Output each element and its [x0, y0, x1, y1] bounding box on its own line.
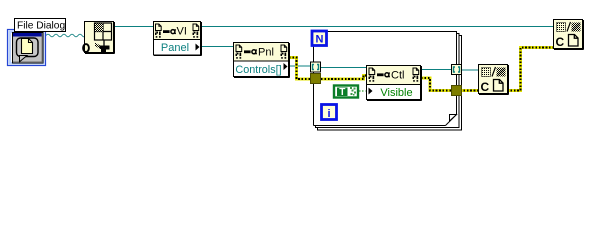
- wire: error left tunnel to Ctl error in: [321, 76, 367, 80]
- for loop stacked border line 2: [316, 36, 462, 131]
- property node Ctl: [367, 66, 422, 101]
- express VI File Dialog icon: [8, 30, 46, 66]
- for loop corner fold flap: [450, 115, 457, 122]
- wire: Index Array out to VI property node refnum in: [115, 26, 153, 28]
- function Index Array icon: [83, 22, 114, 54]
- tunnel: auto-index output (right): [452, 65, 462, 75]
- svg-text:VI: VI: [177, 26, 187, 38]
- svg-text:Pnl: Pnl: [258, 47, 274, 59]
- label File Dialog: [15, 19, 66, 32]
- wire: path wire File Dialog to Index Array (teal squiggle): [46, 34, 85, 37]
- svg-text:T: T: [339, 87, 345, 98]
- svg-text:Visible: Visible: [380, 87, 412, 99]
- wire: error right tunnel to lower Close Reference error in: [460, 89, 478, 92]
- tunnel: error output (right): [452, 86, 462, 96]
- node i: loop iteration terminal: [322, 105, 337, 120]
- node N: loop count terminal: [312, 31, 327, 46]
- wire: error Pnl out down into loop left error tunnel: [289, 58, 311, 80]
- for loop corner dog-ear diagonal: [446, 115, 457, 126]
- constant True: [334, 86, 358, 99]
- tunnel: auto-index input (left): [311, 62, 321, 72]
- function Close Reference (top right): [554, 20, 584, 50]
- svg-text:Panel: Panel: [161, 42, 189, 54]
- wire: boolean T constant to Visible input (green dotted): [359, 90, 367, 92]
- svg-text:File Dialog: File Dialog: [17, 21, 65, 32]
- wire: Panel out to Pnl property node refnum in: [201, 46, 234, 48]
- for loop stacked border line 1: [314, 34, 460, 128]
- svg-text:N: N: [316, 34, 324, 46]
- tunnel: error input (left): [311, 74, 321, 84]
- property node VI: [154, 22, 202, 56]
- wire: VI refnum out to Close Reference (top right): [201, 26, 553, 28]
- wire: loop left tunnel to Ctl refnum in: [320, 67, 367, 69]
- wire: lower Close Reference error out up to top Close Reference error in: [507, 48, 553, 91]
- function Close Reference (lower): [479, 65, 509, 95]
- wire: Ctl refnum out to loop right tunnel: [421, 69, 457, 71]
- svg-text:Ctl: Ctl: [391, 70, 404, 82]
- svg-text:i: i: [327, 108, 330, 120]
- property node Pnl: [234, 43, 290, 78]
- svg-text:Controls[]: Controls[]: [235, 64, 281, 76]
- wire: loop right tunnel to lower Close Reference: [457, 69, 478, 71]
- wire: Ctl error out to loop right error tunnel: [421, 78, 452, 91]
- for loop main border: [314, 32, 457, 126]
- wire: Controls[] out to loop left tunnel: [289, 65, 312, 67]
